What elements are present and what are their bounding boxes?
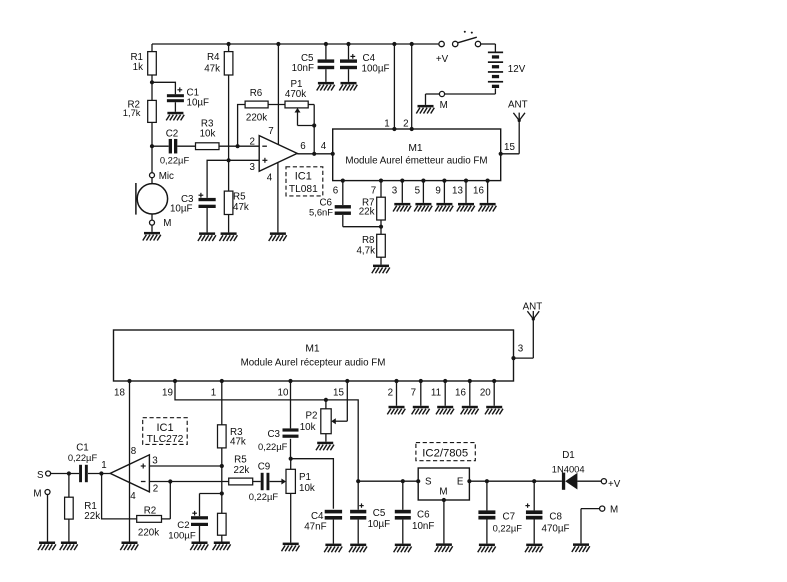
svg-text:10: 10 (278, 387, 289, 398)
svg-text:P1: P1 (299, 472, 311, 483)
svg-text:S: S (37, 470, 44, 481)
svg-text:16: 16 (473, 186, 484, 197)
svg-text:2: 2 (388, 387, 393, 398)
svg-text:100µF: 100µF (362, 64, 390, 75)
svg-text:2: 2 (403, 119, 408, 130)
svg-text:M: M (610, 505, 618, 516)
svg-text:220k: 220k (138, 527, 159, 538)
svg-text:6: 6 (333, 186, 339, 197)
svg-text:100µF: 100µF (168, 530, 196, 541)
svg-text:10k: 10k (299, 483, 315, 494)
svg-text:4: 4 (130, 491, 136, 502)
svg-text:10nF: 10nF (412, 521, 434, 532)
svg-text:R6: R6 (250, 88, 263, 99)
svg-text:D1: D1 (562, 450, 575, 461)
svg-text:IC2/7805: IC2/7805 (422, 448, 468, 460)
svg-text:M: M (440, 100, 448, 111)
svg-text:C7: C7 (503, 511, 516, 522)
svg-text:470k: 470k (285, 89, 306, 100)
svg-text:R5: R5 (234, 454, 247, 465)
svg-text:13: 13 (452, 186, 463, 197)
svg-text:IC1: IC1 (295, 171, 312, 183)
svg-text:22k: 22k (84, 511, 100, 522)
svg-text:18: 18 (114, 387, 125, 398)
svg-text:3: 3 (152, 456, 158, 467)
svg-text:M: M (33, 489, 41, 500)
svg-text:1: 1 (211, 387, 216, 398)
svg-text:1,7k: 1,7k (123, 107, 141, 118)
svg-text:C8: C8 (549, 511, 562, 522)
svg-text:1: 1 (384, 119, 389, 130)
svg-text:+V: +V (436, 54, 449, 65)
svg-text:2: 2 (250, 136, 255, 147)
svg-text:7: 7 (371, 186, 376, 197)
svg-text:C4: C4 (363, 53, 376, 64)
svg-text:7: 7 (268, 126, 273, 137)
svg-text:10µF: 10µF (368, 519, 391, 530)
svg-text:7: 7 (411, 387, 416, 398)
svg-text:R2: R2 (144, 505, 157, 516)
svg-text:C2: C2 (177, 520, 189, 531)
svg-text:+V: +V (608, 479, 621, 490)
svg-text:11: 11 (431, 387, 441, 398)
svg-text:2: 2 (153, 484, 158, 495)
svg-text:Mic: Mic (159, 171, 174, 182)
svg-text:8: 8 (131, 446, 137, 457)
svg-text:1: 1 (101, 460, 106, 471)
svg-text:4: 4 (267, 172, 273, 183)
svg-text:6: 6 (300, 141, 306, 152)
svg-text:15: 15 (504, 142, 515, 153)
svg-text:M1: M1 (305, 343, 320, 354)
svg-text:0,22µF: 0,22µF (160, 155, 190, 166)
svg-text:20: 20 (480, 387, 491, 398)
svg-text:0,22µF: 0,22µF (68, 452, 98, 463)
svg-text:4: 4 (321, 141, 327, 152)
svg-text:12V: 12V (508, 64, 526, 75)
svg-text:R5: R5 (233, 191, 246, 202)
svg-text:R8: R8 (362, 235, 375, 246)
svg-text:3: 3 (518, 343, 524, 354)
svg-text:3: 3 (250, 162, 256, 173)
svg-text:1k: 1k (133, 62, 143, 73)
svg-text:TL081: TL081 (289, 184, 318, 195)
svg-text:10k: 10k (200, 128, 216, 139)
svg-text:C3: C3 (267, 429, 280, 440)
svg-text:S: S (425, 477, 432, 488)
svg-text:C6: C6 (417, 510, 430, 521)
svg-text:M: M (439, 487, 447, 498)
svg-text:C4: C4 (311, 511, 324, 522)
svg-text:C2: C2 (166, 128, 179, 139)
svg-text:0,22µF: 0,22µF (258, 441, 288, 452)
svg-text:47k: 47k (233, 202, 249, 213)
svg-text:Module Aurel émetteur audio FM: Module Aurel émetteur audio FM (345, 156, 487, 167)
svg-text:16: 16 (455, 387, 466, 398)
svg-text:220k: 220k (246, 112, 267, 123)
svg-text:R4: R4 (207, 52, 220, 63)
svg-text:47k: 47k (230, 437, 246, 448)
svg-text:E: E (457, 477, 464, 488)
svg-text:P2: P2 (306, 410, 318, 421)
svg-text:5: 5 (415, 186, 421, 197)
svg-text:19: 19 (162, 387, 173, 398)
svg-text:ANT: ANT (523, 301, 543, 312)
svg-text:3: 3 (392, 186, 398, 197)
svg-text:0,22µF: 0,22µF (493, 523, 523, 534)
svg-text:M1: M1 (408, 143, 423, 154)
svg-text:22k: 22k (234, 465, 250, 476)
svg-text:4,7k: 4,7k (356, 246, 375, 257)
svg-text:10k: 10k (300, 422, 316, 433)
svg-text:10µF: 10µF (170, 203, 193, 214)
svg-text:47nF: 47nF (304, 522, 326, 533)
svg-text:470µF: 470µF (542, 524, 570, 535)
svg-text:Module Aurel récepteur audio F: Module Aurel récepteur audio FM (241, 358, 386, 369)
svg-text:C5: C5 (373, 508, 386, 519)
svg-text:1N4004: 1N4004 (552, 463, 585, 474)
svg-text:22k: 22k (359, 207, 375, 218)
svg-text:5,6nF: 5,6nF (309, 207, 333, 218)
svg-text:9: 9 (435, 186, 440, 197)
svg-text:IC1: IC1 (156, 422, 173, 434)
svg-text:0,22µF: 0,22µF (249, 491, 279, 502)
svg-text:ANT: ANT (508, 100, 528, 111)
svg-text:M: M (163, 218, 171, 229)
svg-text:10nF: 10nF (292, 63, 314, 74)
svg-text:TLC272: TLC272 (147, 434, 184, 445)
svg-text:15: 15 (333, 387, 344, 398)
svg-text:C9: C9 (258, 462, 271, 473)
svg-text:10µF: 10µF (187, 98, 210, 109)
svg-text:47k: 47k (204, 63, 220, 74)
